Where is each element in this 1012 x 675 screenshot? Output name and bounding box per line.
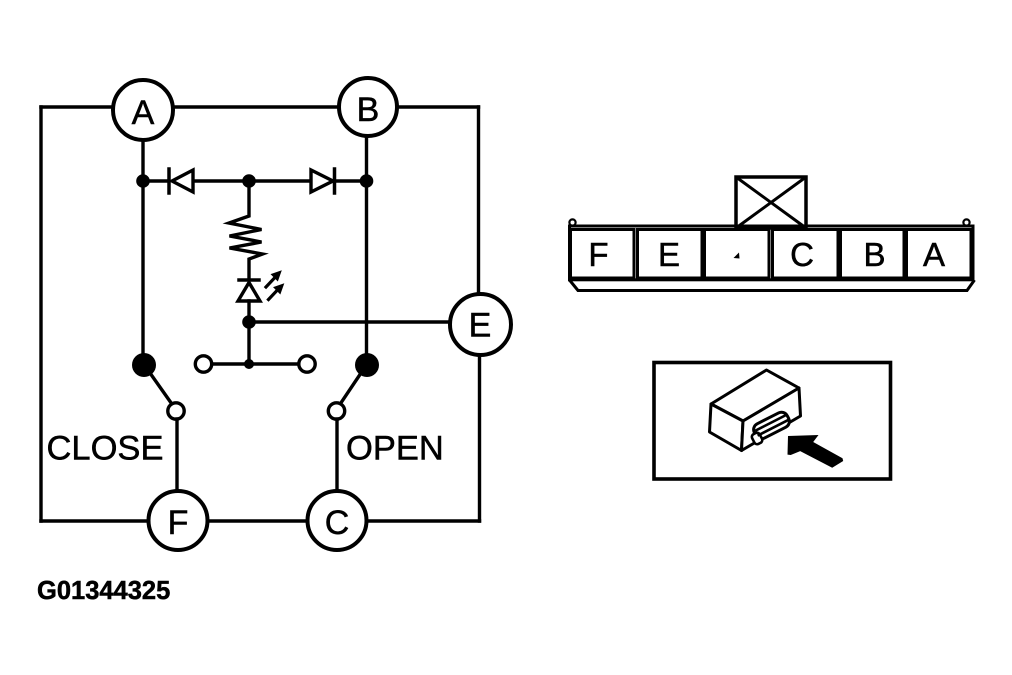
relay body 3D [710,370,801,451]
node junction center-diode [242,174,256,188]
terminal C [308,491,367,550]
wire B stem [365,136,368,360]
connector cell E [638,230,703,279]
switch OPEN open contact [328,403,344,419]
pushbutton left contact [195,356,211,372]
wire right border lower (E to bottom) [478,355,481,522]
wire CLOSE contact to F [175,419,178,491]
diode D2 (cathode right) [311,169,335,193]
resistor [229,182,263,279]
connector shell outline [569,219,974,290]
wire bottom F-C segment [208,519,308,522]
switch CLOSE open contact [168,403,184,419]
svg-text:OPEN: OPEN [346,430,444,468]
wire diode row node-D2 [249,179,311,182]
switch OPEN lever [341,373,362,404]
terminal E [450,294,511,355]
relay figure frame [654,363,891,480]
svg-text:A: A [132,94,155,132]
svg-text:C: C [325,504,350,542]
connector mount hook right [963,219,969,225]
wire bottom left segment [41,519,149,522]
switch OPEN common contact [355,353,379,377]
svg-text:B: B [357,91,380,129]
pushbutton center node [244,359,254,369]
wire diode row D1-node [193,179,249,182]
node junction A-diode [136,174,150,188]
wire right border upper [477,107,480,294]
terminal F [149,491,208,550]
LED light arrows [266,272,283,300]
LED D3 [238,280,260,364]
wire top B-corner segment [397,105,479,108]
wire top left segment [41,105,113,108]
svg-text:E: E [658,236,680,273]
svg-text:E: E [469,307,492,345]
connector bottom lip [570,280,975,291]
relay socket [747,410,792,445]
svg-text:A: A [923,236,945,273]
switch CLOSE lever [150,373,172,404]
wire top A-B segment [173,105,339,108]
node junction LED-E [242,315,256,329]
pushbutton right contact [299,356,315,372]
connector cell blank [705,230,770,279]
wire LED node to E [249,320,450,323]
svg-text:F: F [168,504,189,542]
wire bottom C-corner segment [367,519,480,522]
wire diode row D2-B [334,179,367,182]
svg-text:C: C [790,236,814,273]
wire left border [39,107,42,521]
node junction B-diode [360,174,374,188]
connector blank cell mark [734,253,740,259]
connector cell B [841,230,905,279]
wire OPEN contact to C [335,419,338,491]
connector cell C [773,230,839,279]
svg-text:F: F [588,236,608,273]
wire diode row A-D1 [143,179,168,182]
connector cell F [571,230,635,279]
svg-text:G01344325: G01344325 [37,577,170,605]
pushbutton bar [212,362,299,365]
connector keyed lug (crossed box) [736,177,806,228]
terminal B [339,78,397,136]
svg-text:B: B [863,236,885,273]
wire A stem [141,140,144,360]
svg-text:CLOSE: CLOSE [47,430,164,468]
diode D1 (cathode left) [169,169,193,193]
switch CLOSE common contact [132,353,156,377]
connector mount hook left [569,219,575,225]
connector cell A [907,230,972,279]
arrow pointing to relay [788,435,844,468]
terminal A [113,80,173,140]
